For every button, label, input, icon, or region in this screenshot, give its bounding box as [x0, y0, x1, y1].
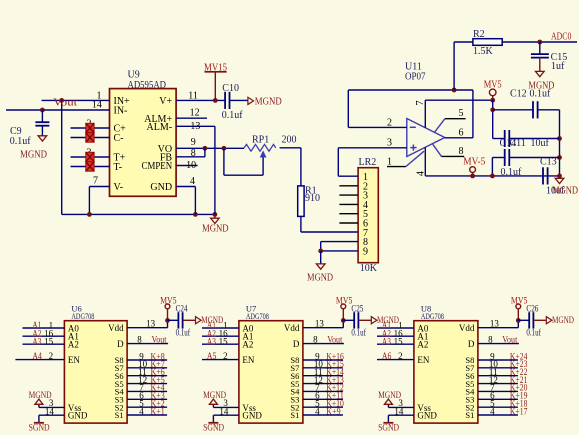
svg-text:9: 9 [363, 246, 368, 257]
svg-text:K+1: K+1 [151, 406, 165, 416]
wire U7 pin 2 EN [202, 351, 239, 361]
wire U7 pin 3 Vss with MGND [203, 391, 239, 408]
svg-text:10K: 10K [360, 263, 378, 274]
wire U7 S3 net K+11 [303, 391, 344, 401]
svg-text:8: 8 [488, 334, 493, 344]
wire U8 S3 net K+19 [478, 391, 528, 401]
capacitor C10 0.1uf [222, 83, 248, 121]
wire pin1 IN+ [42, 90, 110, 101]
capacitor C14 0.1uf [490, 149, 560, 178]
wire U8 S2 net K+18 [478, 398, 528, 408]
svg-text:C10: C10 [222, 83, 239, 94]
svg-text:MGND: MGND [552, 186, 578, 197]
svg-text:C11: C11 [510, 138, 526, 149]
pin8 stub [433, 144, 464, 157]
wire U7 S8 net K+16 [303, 351, 344, 361]
svg-text:C13: C13 [540, 156, 557, 167]
wire U7 S4 net K+12 [303, 383, 344, 393]
wire U6 S1 net K+1 [127, 406, 167, 416]
wire U6 S3 net K+3 [127, 391, 167, 401]
svg-text:8: 8 [191, 148, 196, 159]
wire U6 pin 13 Vdd [127, 319, 167, 329]
wire U8 pin 3 Vss with MGND [378, 391, 414, 408]
svg-text:D: D [117, 339, 124, 349]
svg-text:2: 2 [223, 351, 228, 361]
svg-text:ADG708: ADG708 [71, 311, 94, 321]
wire U8 S6 net K+22 [478, 367, 528, 377]
power port MV5 above U6 [160, 296, 177, 323]
wire U6 pin 15 address [23, 336, 65, 346]
capacitor C13 10uf [540, 156, 565, 196]
svg-text:4: 4 [490, 406, 495, 416]
wire U7 pin 1 address [202, 320, 239, 330]
svg-text:ADG708: ADG708 [421, 311, 444, 321]
svg-text:200: 200 [282, 135, 297, 146]
capacitor C9 0.1uf [10, 108, 50, 147]
svg-text:GND: GND [242, 411, 262, 421]
chip U9 AD595AD body [110, 70, 177, 197]
svg-text:910: 910 [305, 193, 320, 204]
wire R1 bottom to LR2 pin7 [301, 216, 358, 232]
wire pin7 V- [89, 176, 109, 215]
wire pin3 T+ with no-ERC marker [71, 147, 110, 161]
wire MGND right vertical [557, 110, 562, 179]
svg-text:C26: C26 [526, 304, 538, 314]
svg-text:C12: C12 [510, 89, 527, 100]
wire U7 S6 net K+14 [303, 367, 344, 377]
svg-text:1: 1 [387, 156, 392, 167]
svg-text:13: 13 [146, 319, 156, 329]
wire U6 pin 3 Vss with MGND [29, 391, 65, 408]
svg-text:A3: A3 [32, 336, 41, 346]
svg-text:MGND: MGND [202, 224, 229, 235]
svg-text:D: D [293, 339, 300, 349]
svg-text:S1: S1 [465, 410, 474, 420]
svg-text:Vdd: Vdd [108, 323, 124, 333]
svg-text:14: 14 [92, 100, 102, 111]
resistor network LR2 10K [358, 157, 378, 274]
svg-text:Vout: Vout [152, 335, 167, 345]
svg-text:K+17: K+17 [510, 406, 528, 416]
svg-text:0.1uf: 0.1uf [222, 110, 244, 121]
capacitor C11 10uf [493, 130, 560, 149]
svg-text:IN-: IN- [114, 106, 128, 117]
power port MV5 above U8 [511, 296, 528, 323]
svg-text:0.1uf: 0.1uf [526, 327, 541, 337]
wire U8 pin 13 Vdd [478, 319, 518, 329]
power port MGND bottom right [552, 176, 578, 197]
svg-text:EN: EN [68, 355, 80, 365]
svg-text:S1: S1 [115, 410, 124, 420]
svg-text:MGND: MGND [20, 150, 47, 161]
wire pin13 ALM- to ground rail [176, 121, 215, 215]
power port MGND below LR2 [307, 264, 333, 283]
svg-text:1.5K: 1.5K [473, 46, 494, 57]
wire pin4 V- power [416, 147, 560, 176]
svg-text:Vout: Vout [327, 335, 342, 345]
svg-text:A2: A2 [242, 340, 253, 350]
capacitor C26 0.1uf [518, 304, 546, 338]
capacitor C15 1uf [531, 42, 567, 72]
svg-text:8: 8 [459, 146, 464, 157]
wire pin3 non-inverting input [338, 138, 407, 149]
svg-text:0.1uf: 0.1uf [10, 136, 32, 147]
power port MGND below C15 [528, 71, 554, 91]
wire pin14 IN- [6, 100, 110, 111]
wire U8 S4 net K+20 [478, 383, 528, 393]
wire R2 to ADC0 [502, 40, 577, 45]
svg-text:A6: A6 [382, 351, 392, 361]
wire U7 pin 13 Vdd [303, 319, 343, 329]
pin1 stub [387, 151, 424, 167]
power port MGND right of C26 [546, 316, 574, 326]
power port MGND right of C25 [371, 316, 399, 326]
wire U7 pin 16 address [202, 328, 239, 338]
svg-text:GND: GND [150, 182, 172, 193]
wire C- with no-ERC marker [71, 133, 110, 142]
svg-text:15: 15 [394, 337, 404, 347]
svg-text:R2: R2 [473, 29, 485, 40]
svg-text:A5: A5 [207, 351, 217, 361]
svg-text:SGND: SGND [378, 424, 399, 434]
svg-text:EN: EN [417, 355, 429, 365]
svg-text:0.1uf: 0.1uf [176, 327, 191, 337]
wire T- with no-ERC marker [71, 162, 110, 171]
svg-text:MGND: MGND [307, 272, 333, 283]
power port MV-5 [463, 157, 485, 179]
wire U8 S8 net K+24 [478, 351, 528, 361]
wire U6 pin 16 address [23, 328, 65, 338]
power port MV5 opamp [484, 80, 502, 103]
wire U7 S2 net K+10 [303, 398, 344, 408]
power port MGND below C9 [20, 136, 47, 161]
potentiometer RP1 200 [244, 135, 296, 176]
svg-text:A2: A2 [68, 340, 79, 350]
svg-text:5: 5 [459, 108, 464, 119]
svg-text:11: 11 [188, 91, 198, 102]
svg-text:10uf: 10uf [531, 138, 550, 149]
chip U7 ADG708 body [239, 304, 303, 424]
wire pin2 inverting input [348, 117, 407, 128]
svg-text:GND: GND [417, 411, 437, 421]
svg-text:EN: EN [242, 355, 254, 365]
wire RP1 wiper loop to VO [224, 148, 263, 175]
power port MV15 [204, 62, 227, 103]
svg-text:SGND: SGND [203, 424, 224, 434]
svg-text:MV-5: MV-5 [463, 157, 485, 168]
svg-text:A4: A4 [32, 351, 42, 361]
svg-text:0.1uf: 0.1uf [501, 167, 523, 178]
svg-text:AD595AD: AD595AD [128, 80, 167, 91]
wire pin10 CMPEN stub [176, 160, 198, 171]
svg-text:4: 4 [190, 176, 195, 187]
wire LR2 pin1 to op-amp +input [338, 148, 358, 176]
wire U8 S7 net K+23 [478, 359, 528, 369]
wire U6 S8 net K+8 [127, 351, 167, 361]
wire U8 pin 16 address [377, 328, 414, 338]
svg-text:2: 2 [49, 351, 54, 361]
wire MV5 rail down [490, 100, 495, 138]
wire U7 S7 net K+15 [303, 359, 344, 369]
wire U6 S7 net K+7 [127, 359, 167, 369]
resistor R2 1.5K [473, 29, 502, 57]
svg-text:Vdd: Vdd [284, 323, 300, 333]
svg-text:6: 6 [459, 128, 464, 139]
svg-text:T-: T- [114, 162, 123, 173]
svg-text:14: 14 [219, 406, 229, 416]
wire pin11 V+ [176, 91, 225, 102]
svg-text:3: 3 [387, 138, 392, 149]
svg-text:14: 14 [45, 406, 55, 416]
svg-text:15: 15 [219, 337, 229, 347]
pin5 stub [435, 108, 466, 133]
wire U7 pin 8 D output Vout [303, 334, 344, 345]
wire U6 pin 1 address [23, 320, 65, 330]
svg-text:Vdd: Vdd [459, 323, 475, 333]
wire LR2 pin8 [321, 242, 358, 251]
wire U8 pin 8 D output Vout [478, 334, 519, 345]
capacitor C25 0.1uf [343, 304, 371, 338]
wire U6 pin 8 D output Vout [127, 334, 168, 345]
svg-text:7: 7 [415, 101, 426, 106]
svg-text:A2: A2 [417, 340, 428, 350]
wire LR2 stub pins 2-6 [339, 186, 358, 223]
svg-text:0.1uf: 0.1uf [351, 327, 366, 337]
svg-text:A3: A3 [382, 336, 391, 346]
svg-text:13: 13 [190, 121, 200, 132]
wire U6 pin 2 EN [15, 351, 64, 361]
svg-text:14: 14 [394, 406, 404, 416]
power port MGND on rail [202, 212, 229, 235]
svg-text:K+9: K+9 [326, 406, 341, 416]
wire U6 S4 net K+4 [127, 383, 167, 393]
svg-text:2: 2 [398, 351, 403, 361]
wire U8 S5 net K+21 [478, 375, 528, 385]
svg-text:C24: C24 [176, 304, 188, 314]
svg-text:Vout: Vout [502, 335, 517, 345]
svg-text:8: 8 [137, 334, 142, 344]
wire U7 S1 net K+9 [303, 406, 343, 416]
svg-text:4: 4 [139, 406, 144, 416]
op-amp U11 OP07 triangle [405, 61, 445, 156]
node Vout junction pin1 [59, 98, 64, 214]
svg-text:15: 15 [44, 337, 54, 347]
wire pin8 FB tied to VO [176, 148, 205, 159]
svg-text:V-: V- [114, 182, 124, 193]
svg-text:Vout: Vout [53, 97, 77, 108]
svg-text:10: 10 [186, 160, 196, 171]
wire LR2 pin9 [318, 249, 358, 264]
svg-text:U9: U9 [128, 70, 140, 81]
wire U8 S1 net K+17 [478, 406, 528, 416]
wire U8 pin 15 address [377, 336, 414, 346]
wire U8 pin 1 address [377, 320, 414, 330]
svg-text:LR2: LR2 [359, 157, 377, 168]
node R2 feedback junction [452, 88, 457, 93]
wire RP1 right to R1 [280, 148, 301, 186]
svg-text:OP07: OP07 [405, 71, 426, 82]
svg-text:2: 2 [387, 117, 392, 128]
svg-text:ALM-: ALM- [147, 122, 173, 133]
svg-text:V+: V+ [159, 96, 172, 107]
wire feedback loop [348, 90, 473, 138]
wire U7 pin 15 address [202, 336, 239, 346]
svg-text:1uf: 1uf [551, 61, 565, 72]
svg-text:D: D [468, 339, 475, 349]
svg-text:9: 9 [191, 137, 196, 148]
wire pin7 V+ power [415, 100, 493, 127]
wire U8 pin 14 GND with SGND [378, 406, 414, 433]
wire pin4 GND to rail [176, 176, 195, 214]
svg-text:7: 7 [93, 176, 98, 187]
wire pin12 ALM+ [176, 107, 207, 118]
wire R2 left vertical [454, 42, 473, 90]
svg-text:0.1uf: 0.1uf [530, 89, 552, 100]
wire U6 S5 net K+5 [127, 375, 167, 385]
wire ground rail below U9 [62, 212, 215, 217]
wire U7 pin 14 GND with SGND [203, 406, 239, 433]
chip U6 ADG708 body [64, 304, 127, 424]
svg-text:13: 13 [490, 319, 500, 329]
svg-text:8: 8 [313, 334, 318, 344]
svg-text:4: 4 [416, 171, 427, 176]
power port MGND right of C10 [248, 96, 282, 107]
svg-text:GND: GND [68, 411, 88, 421]
svg-text:CMPEN: CMPEN [142, 161, 173, 172]
svg-text:MGND: MGND [255, 96, 282, 107]
wire U7 S5 net K+13 [303, 375, 344, 385]
resistor R1 910 [298, 186, 320, 217]
wire pin6 output [445, 128, 473, 139]
power port MV5 above U7 [336, 296, 353, 323]
wire U6 S2 net K+2 [127, 398, 167, 408]
wire U6 pin 14 GND with SGND [29, 406, 65, 433]
svg-text:C-: C- [114, 133, 124, 144]
svg-text:MGND: MGND [552, 316, 574, 326]
svg-text:4: 4 [315, 406, 320, 416]
wire pin9 VO [176, 137, 244, 151]
svg-text:ADC0: ADC0 [551, 32, 571, 43]
wire pin2 C+ with no-ERC marker [71, 118, 110, 132]
svg-text:13: 13 [315, 319, 325, 329]
svg-text:S1: S1 [290, 410, 299, 420]
capacitor C12 0.1uf [493, 89, 560, 119]
chip U8 ADG708 body [414, 304, 478, 424]
wire U8 pin 2 EN [377, 351, 414, 361]
power port MGND right of C24 [196, 316, 224, 326]
wire U6 S6 net K+6 [127, 367, 167, 377]
svg-text:A3: A3 [207, 336, 216, 346]
svg-text:SGND: SGND [29, 424, 50, 434]
svg-text:12: 12 [190, 107, 200, 118]
svg-text:RP1: RP1 [252, 135, 269, 146]
svg-text:C25: C25 [351, 304, 363, 314]
svg-text:ADG708: ADG708 [246, 311, 269, 321]
capacitor C24 0.1uf [168, 304, 196, 338]
